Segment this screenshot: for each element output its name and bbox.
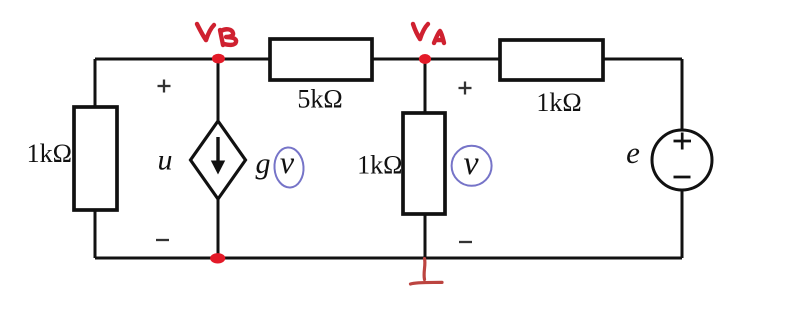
svg-text:e: e	[626, 135, 640, 170]
svg-text:v: v	[463, 145, 479, 182]
svg-text:1kΩ: 1kΩ	[536, 88, 581, 117]
svg-text:u: u	[158, 144, 173, 177]
svg-text:g: g	[256, 147, 271, 180]
svg-text:5kΩ: 5kΩ	[297, 85, 342, 114]
svg-text:1kΩ: 1kΩ	[27, 139, 72, 168]
svg-text:1kΩ: 1kΩ	[357, 151, 402, 180]
